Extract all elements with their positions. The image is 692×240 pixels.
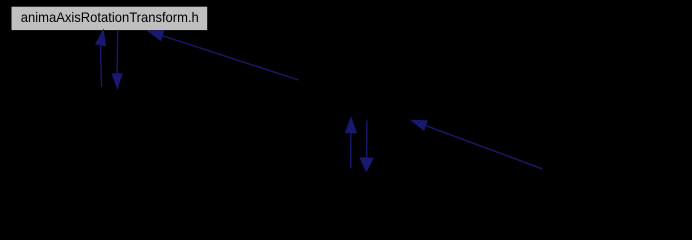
- svg-text:animaAxisRotationTransform.h: animaAxisRotationTransform.h: [21, 9, 199, 25]
